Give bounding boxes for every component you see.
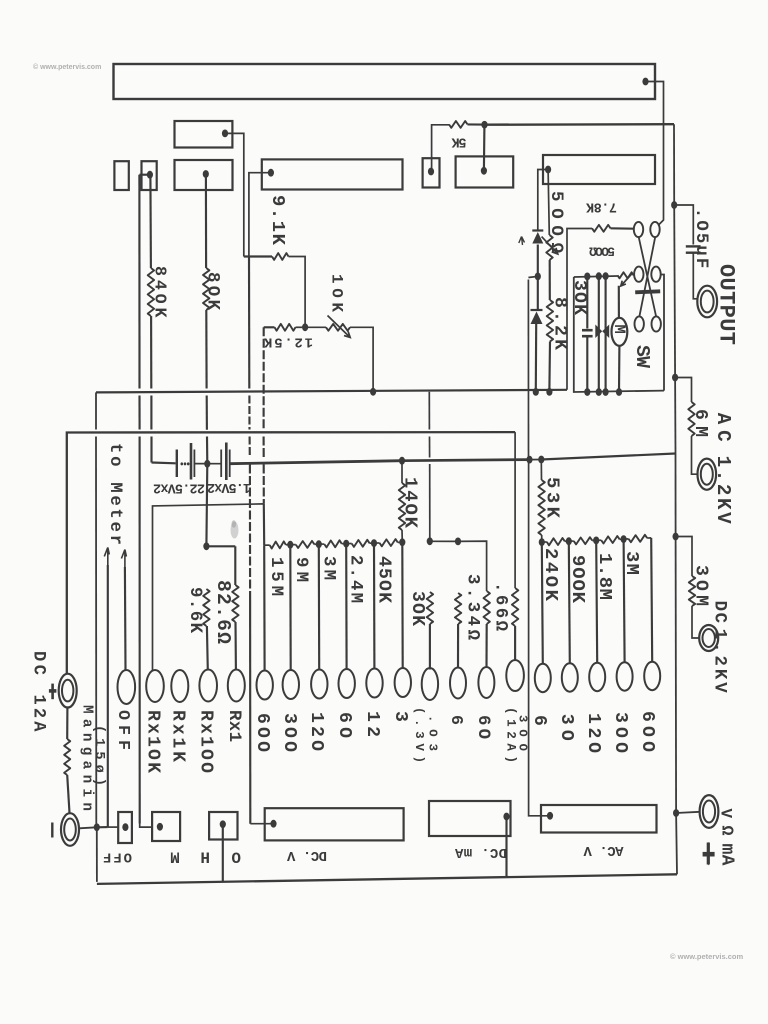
DC V ladder bus	[264, 544, 270, 546]
small polarity arrow near D1	[519, 237, 525, 246]
wire between batteries	[194, 463, 221, 465]
resistor 140K	[399, 483, 405, 530]
wire 80K between buses	[206, 396, 208, 430]
wire 12.5K left lead	[264, 326, 275, 328]
resistor DCV ladder 1	[270, 541, 286, 548]
svg-text:DC. mA: DC. mA	[454, 844, 507, 860]
wire 9.1K to 12.5K node	[289, 257, 306, 325]
wire crosses battery bus	[429, 437, 431, 458]
wire x=249 down (crosses bus1)	[248, 257, 250, 389]
svg-text:6: 6	[446, 715, 465, 725]
wire bus3 continues	[402, 460, 530, 461]
jack DC 12A plus	[59, 674, 77, 708]
resistor ACV ladder 3	[601, 536, 619, 544]
contact DCmA 6	[450, 668, 466, 699]
resistor 12.5K	[275, 324, 296, 331]
resistor 5K	[449, 121, 468, 128]
contact DCmA .03	[422, 668, 438, 700]
resistor 500ohm meter shunt rheostat	[618, 272, 634, 278]
wire meter box left+bottom	[574, 277, 664, 392]
resistor 7.8K	[592, 225, 611, 232]
wire P5 tap to 9.1K node	[249, 173, 269, 257]
wire ACV drop 120	[596, 540, 597, 662]
junction cap line top	[584, 273, 590, 281]
junction cap line bottom	[584, 388, 590, 396]
junction x=529 crossing	[526, 456, 532, 464]
wire bar B1 to switch contact B	[648, 82, 664, 226]
resistor 500ohm rheostat	[546, 235, 552, 260]
contact Rx1K	[171, 670, 188, 702]
wire mA bus	[430, 540, 458, 542]
wire D2 to bus1	[535, 324, 538, 389]
junction line2 bottom	[596, 388, 602, 396]
wire 53K bottom	[541, 535, 543, 542]
arrow to-meter wiper	[104, 547, 109, 565]
wire bus2 down to .66ohm shunt	[514, 432, 516, 588]
wire DCV drop 60	[345, 544, 348, 669]
resistor 53K	[538, 480, 544, 535]
junction AC ladder	[621, 535, 627, 543]
svg-text:M: M	[170, 848, 180, 866]
wire x=249 crosses battery bus	[249, 437, 251, 458]
svg-text:3OO: 3OO	[610, 712, 630, 753]
wire P3 tap down to 840K	[149, 175, 152, 268]
junction diode mid tap	[535, 273, 541, 281]
svg-text:24OK: 24OK	[540, 548, 562, 602]
slide plate AC.V	[541, 805, 657, 833]
svg-text:OFF: OFF	[113, 710, 132, 750]
switch contact B	[650, 222, 659, 237]
svg-text:SW: SW	[631, 345, 653, 368]
wire	[468, 123, 483, 125]
contact DCmA 300(12A)	[506, 660, 524, 691]
contact OFF	[118, 670, 136, 704]
protection diodes bowtie	[595, 325, 602, 339]
svg-text:.O3: .O3	[425, 715, 439, 751]
wire to output cap	[674, 205, 693, 245]
svg-text:5OOΩ: 5OOΩ	[589, 243, 615, 258]
slide contact plate P7	[456, 156, 514, 187]
wire bus1	[96, 390, 567, 393]
svg-text:15M: 15M	[266, 557, 285, 596]
wire ACV drop 300	[624, 539, 625, 662]
svg-text:1.5Vx2: 1.5Vx2	[207, 479, 251, 494]
junction P1 tap	[222, 130, 228, 138]
wire x=263.6 down from 12.5K (crosses bus2)	[263, 327, 265, 429]
resistor ACV ladder 2	[574, 537, 592, 544]
junction AC ladder	[566, 537, 572, 545]
wire sq P6 up to 5K	[432, 125, 449, 168]
wire to VohmmA jack	[676, 812, 700, 813]
slide box OFF	[118, 812, 132, 843]
contact ACV 300	[617, 662, 633, 690]
svg-text:9.6K: 9.6K	[185, 587, 204, 634]
junction bar B1 right end	[642, 78, 648, 86]
svg-text:12O: 12O	[583, 713, 603, 753]
contact Rx100	[199, 670, 217, 702]
junction minus node	[94, 823, 100, 831]
svg-text:.O5uF: .O5uF	[691, 208, 710, 268]
svg-text:1OK: 1OK	[328, 274, 346, 312]
svg-text:5K: 5K	[451, 134, 467, 149]
capacitor .05uF	[686, 245, 701, 247]
contact DCV 60	[339, 669, 355, 698]
wire x=249 between buses dashed	[248, 396, 250, 430]
wire manganin to minus jack	[67, 775, 69, 813]
wire P8 tap down to 500ohm rheostat	[548, 170, 549, 236]
contact ACV 6	[535, 664, 551, 692]
wire protection line right	[605, 276, 607, 392]
meter movement M	[612, 318, 628, 346]
resistor .66ohm-2	[484, 591, 490, 624]
junction 12.5K/10K node	[302, 323, 308, 331]
junction AC bus left	[539, 538, 545, 546]
svg-text:Ω: Ω	[717, 826, 736, 836]
wire x=139.6 down to OHM slide box2	[139, 437, 141, 824]
plus sign	[51, 684, 54, 700]
wire to diode D2	[537, 276, 539, 309]
wire cap line upper	[586, 276, 588, 328]
wire main right line seg1	[673, 124, 675, 205]
svg-text:3OM: 3OM	[691, 565, 711, 606]
wire top segment joining bus1	[95, 392, 97, 429]
wire 840K between buses	[150, 396, 152, 430]
svg-text:O: O	[231, 848, 241, 866]
junction 8.2K on bus1	[546, 388, 552, 396]
switch contact C	[634, 267, 643, 282]
contact DCV 120	[311, 670, 327, 699]
junction DCV ladder	[316, 540, 322, 548]
svg-text:3: 3	[390, 711, 410, 722]
junction AC.V tap	[547, 812, 553, 820]
wire P8 tap to diode line	[538, 170, 546, 230]
slide contact plate P1	[175, 121, 233, 148]
wire main right line seg5	[675, 537, 678, 814]
junction 140K tap	[399, 457, 405, 465]
wire 140K bottom	[401, 530, 403, 542]
wire DCV drop 300	[289, 545, 292, 670]
svg-text:OFF: OFF	[103, 849, 132, 865]
svg-text:1.2KV: 1.2KV	[709, 629, 728, 694]
smudge artifact	[231, 522, 239, 539]
wire meter box top edge	[574, 276, 618, 277]
resistor 9.1K	[272, 253, 289, 260]
slide contact plate P2 (small)	[114, 161, 128, 190]
contact DCV 12	[366, 669, 382, 698]
jack AC 1.2KV	[698, 459, 717, 490]
wire bracket to Rx10K contact	[153, 504, 264, 671]
wire minus node to box1 corner	[97, 826, 108, 828]
resistor 6M	[688, 402, 694, 436]
wire x=139.5 down (crosses bus1)	[138, 175, 140, 389]
wire switch wiper bar	[635, 291, 660, 292]
wire wiper to OFF contact	[124, 567, 127, 670]
wire 9.1K left lead	[244, 255, 272, 257]
wire bus3 battery output	[230, 461, 402, 464]
wire down to mA bus	[429, 464, 431, 539]
junction output tap	[671, 201, 677, 209]
wire minus jack out	[79, 827, 97, 828]
junction P3 tap	[147, 171, 153, 179]
svg-text:45OK: 45OK	[374, 556, 394, 603]
wire cap to OUTPUT jack	[693, 253, 697, 299]
resistor ACV ladder 1	[547, 538, 565, 545]
junction DCV ladder	[399, 538, 405, 546]
wire minus node down	[96, 827, 98, 882]
slide contact plate P5 (long)	[262, 159, 403, 189]
svg-text:12.5K: 12.5K	[263, 334, 313, 350]
slide box OHM-right	[209, 812, 237, 840]
wire between diode taps	[537, 245, 539, 277]
switch contact D	[651, 267, 660, 282]
switch contact F	[652, 316, 661, 331]
resistor 840K	[148, 268, 154, 316]
contact DCmA 60	[478, 667, 494, 698]
svg-text:Rx1OK: Rx1OK	[143, 710, 163, 773]
wire protection line left	[598, 276, 600, 392]
wire switch diagonal A-F	[639, 237, 656, 316]
svg-text:1.8M: 1.8M	[594, 553, 616, 600]
wire DC.mA tap to bottom line	[505, 817, 507, 878]
wire meter minus lead	[618, 346, 621, 392]
resistor 30K shunt	[427, 592, 433, 624]
resistor ACV ladder 4	[629, 535, 648, 542]
wire bottom common line	[97, 874, 677, 884]
wire meter plus lead	[618, 286, 620, 318]
wire x=263.7 to bracket node	[263, 465, 265, 504]
svg-text:V: V	[717, 809, 735, 819]
junction line2 top	[596, 272, 602, 280]
wire 30M to DC jack	[692, 606, 699, 638]
bus bar B1 (top long rectangle)	[114, 64, 656, 99]
svg-text:6OO: 6OO	[637, 711, 657, 752]
junction diode line on bus1	[533, 388, 539, 396]
polarity star symbol	[707, 843, 710, 865]
junction DCV ladder	[287, 541, 293, 549]
wire diode tap to x=528 line	[528, 276, 537, 277]
jack DC 1.2KV	[699, 625, 718, 651]
wire	[296, 326, 303, 328]
svg-text:M: M	[610, 325, 628, 334]
wire 6M to AC jack	[692, 436, 698, 474]
wire 9.6K to Rx100 contact	[206, 626, 209, 671]
wire main right line seg2	[673, 205, 676, 378]
wire ACV drop 600	[651, 538, 652, 662]
svg-text:© www.petervis.com: © www.petervis.com	[670, 952, 744, 961]
junction P8 tap	[545, 166, 551, 174]
junction OFF box tap	[122, 823, 128, 831]
wire DCV drop 12	[373, 543, 376, 668]
wire bus3	[530, 459, 542, 461]
wire to 300(12A) contact	[514, 626, 516, 661]
svg-text:AC. V: AC. V	[583, 842, 624, 858]
svg-text:14OK: 14OK	[399, 477, 421, 529]
wire down to 82.6ohm	[234, 546, 236, 585]
wire battery left lead	[152, 461, 176, 464]
svg-text:3OK: 3OK	[569, 280, 589, 315]
resistor 82.6ohm	[232, 585, 238, 622]
wire down to DCV ladder corner	[263, 504, 266, 546]
rheostat wiper arrow 500ohm	[542, 237, 558, 254]
wire 53K top	[540, 460, 542, 481]
junction mA bus left	[427, 537, 433, 545]
junction on bus1 (10K)	[370, 388, 376, 396]
wire x=263.6 crosses battery bus	[263, 437, 265, 458]
junction DC.mA tap	[503, 813, 509, 821]
wire to .03 contact	[429, 624, 431, 670]
wire main right line seg3	[674, 378, 676, 454]
junction AC ladder	[593, 537, 599, 545]
junction P5 tap	[268, 169, 274, 177]
wire 140K top	[401, 461, 403, 483]
jack DC 12A minus	[61, 813, 79, 846]
wire 10K to bus1	[350, 327, 373, 388]
slide contact plate P6 (small)	[423, 158, 440, 187]
wire meter box right edge to contact D	[661, 275, 664, 391]
svg-text:3.34Ω: 3.34Ω	[463, 574, 482, 640]
wire x=528 up to rectifier tap	[527, 280, 529, 458]
resistor Manganin 15ohm	[64, 739, 70, 775]
wire bus2 (+12A bus)	[67, 432, 515, 673]
jack V ohm mA	[700, 795, 719, 828]
wire bus1 up to 7.8K	[567, 229, 592, 390]
wire x=250 down to DC.V slide	[249, 600, 251, 824]
svg-text:DC. V: DC. V	[286, 847, 327, 863]
wire P7 tap up to 5K node	[483, 127, 486, 171]
slide contact plate P4	[175, 160, 233, 190]
diode D2	[531, 309, 543, 311]
wire branch to 82.6ohm	[206, 545, 235, 547]
resistor .66ohm (12A shunt)	[512, 588, 518, 626]
wire x=139.5 between bus1 bus2	[138, 396, 140, 430]
contact ACV 30	[562, 663, 578, 691]
wire switch diagonal B-E	[639, 237, 655, 316]
svg-text:22.5Vx2: 22.5Vx2	[153, 480, 205, 495]
arrow OFF-contact wiper	[121, 550, 126, 568]
minus sign	[51, 823, 53, 838]
svg-text:9OOK: 9OOK	[567, 555, 589, 604]
resistor DCV ladder 5	[380, 539, 398, 546]
wire 82.6ohm to Rx1 contact	[234, 622, 237, 670]
svg-text:Rx1OO: Rx1OO	[196, 710, 216, 773]
svg-text:8OK: 8OK	[202, 272, 221, 311]
wire to 6M	[675, 378, 691, 403]
switch contact A	[634, 222, 643, 237]
wire DCV drop 600	[263, 545, 266, 670]
svg-text:3OO: 3OO	[279, 713, 299, 752]
AC ladder bus	[542, 541, 547, 543]
wire into box1	[108, 826, 118, 828]
junction dc1.2kv tap	[673, 533, 679, 541]
junction ohm divider node	[203, 542, 209, 550]
wire 80K to battery mid junction	[206, 437, 208, 464]
wire box3 down to bottom line	[222, 824, 224, 882]
svg-text:H: H	[200, 848, 210, 866]
junction mA bus mid	[455, 538, 461, 546]
resistor 80K	[203, 268, 209, 310]
pot wiper arrow 10K	[328, 316, 351, 338]
wire to 6mA contact	[457, 624, 459, 667]
contact ACV 600	[644, 662, 660, 690]
contact DCV 3	[395, 668, 411, 697]
wire plus jack to manganin	[66, 708, 68, 740]
junction 5K node	[481, 121, 487, 129]
resistor DCV ladder 4	[352, 540, 370, 547]
wire to 60mA contact	[485, 624, 487, 667]
resistor 3.34ohm	[455, 593, 461, 624]
svg-text:7.8K: 7.8K	[585, 199, 617, 214]
junction box3 tap	[220, 820, 226, 828]
contact ACV 120	[589, 663, 605, 691]
wire x=249.9 down dashed	[249, 465, 251, 601]
svg-text:12A: 12A	[28, 695, 47, 733]
wire battery mid down to ohm node	[205, 464, 208, 547]
junction DC.V tap	[270, 820, 276, 828]
svg-text:9.1K: 9.1K	[267, 195, 289, 246]
wire	[308, 326, 326, 328]
resistor 10K (pot)	[326, 324, 350, 331]
wire 8.2K to bus1	[548, 342, 551, 389]
junction 53K tap	[538, 456, 544, 464]
svg-text:1.2KV: 1.2KV	[712, 456, 734, 524]
junction P6 tap	[428, 168, 434, 176]
wire 30K line from bus1	[428, 392, 430, 430]
junction battery mid tap	[204, 460, 210, 468]
wire into box2	[140, 824, 152, 828]
wire 840K down (crosses bus1)	[150, 316, 152, 389]
svg-text:6OO: 6OO	[252, 713, 272, 752]
diode D1	[532, 229, 543, 231]
junction ac1.2kv tap	[672, 374, 678, 382]
junction DCV ladder	[371, 539, 377, 547]
contact Rx10K	[146, 670, 164, 702]
junction line3 top	[603, 272, 609, 280]
junction meter on box bottom	[616, 388, 622, 396]
wire 7.8K to contact A	[611, 227, 634, 230]
svg-text:Rx1: Rx1	[224, 710, 243, 742]
wire main right line seg4	[675, 454, 677, 537]
resistor 30M	[689, 576, 695, 606]
junction v-ohm-ma node	[673, 809, 679, 817]
junction box2 tap	[157, 823, 163, 831]
wire minus node up to bus1 (crosses bus2)	[95, 437, 97, 828]
wire 80K down (crosses bus1)	[205, 310, 207, 389]
resistor 9.6K	[203, 589, 209, 626]
svg-text:12O: 12O	[306, 712, 326, 751]
capacitor meter bypass	[582, 329, 593, 332]
wire bottom line up to v-ohm-ma node	[675, 813, 678, 874]
contact DCV 300	[283, 670, 299, 699]
battery 22.5Vx2	[176, 450, 178, 478]
wire into DC.V slide dot	[250, 823, 271, 825]
jack OUTPUT	[697, 286, 717, 318]
wire to 30M	[676, 537, 692, 577]
svg-text:82.6Ω: 82.6Ω	[212, 580, 234, 644]
switch contact E	[635, 316, 644, 331]
wire to 8.2K	[549, 260, 551, 300]
wire cap line lower	[586, 338, 588, 393]
wire P3 tap left	[139, 174, 150, 176]
wire ACV drop 6	[542, 542, 543, 664]
resistor DCV ladder 3	[324, 540, 341, 547]
slide plate DC.V	[265, 808, 404, 840]
svg-text:3M: 3M	[621, 551, 643, 575]
resistor DCV ladder 2	[296, 541, 315, 548]
slide box OHM-left	[152, 812, 180, 841]
slide plate P8 (meter top)	[543, 155, 655, 184]
junction P4 tap	[203, 170, 209, 178]
junction line3 bottom	[603, 388, 609, 396]
